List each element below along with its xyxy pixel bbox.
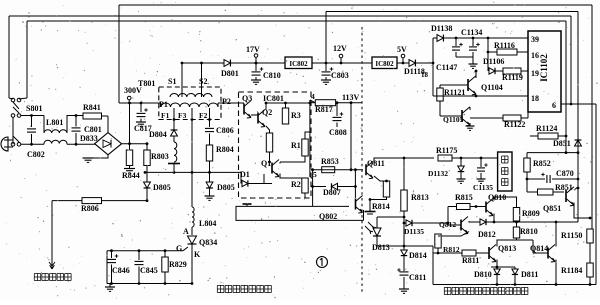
svg-text:12V: 12V xyxy=(333,44,347,53)
svg-text:D807: D807 xyxy=(323,188,341,197)
svg-text:6: 6 xyxy=(552,101,556,110)
svg-text:D804: D804 xyxy=(149,130,167,139)
svg-text:F3: F3 xyxy=(178,111,187,120)
svg-text:5: 5 xyxy=(313,170,317,179)
svg-text:T801: T801 xyxy=(138,79,155,88)
svg-text:S801: S801 xyxy=(26,104,42,113)
svg-text:113V: 113V xyxy=(342,93,360,102)
svg-text:Q834: Q834 xyxy=(199,238,217,247)
svg-text:C811: C811 xyxy=(409,273,426,282)
svg-text:4: 4 xyxy=(311,92,315,101)
svg-text:D851: D851 xyxy=(553,139,571,148)
svg-text:IC1102: IC1102 xyxy=(539,54,549,82)
svg-text:R1121: R1121 xyxy=(444,88,465,97)
svg-text:Q2: Q2 xyxy=(262,108,272,117)
svg-text:R1150: R1150 xyxy=(561,231,582,240)
svg-text:K: K xyxy=(194,250,201,259)
svg-text:S1: S1 xyxy=(168,77,176,86)
svg-text:R809: R809 xyxy=(522,209,540,218)
svg-text:R829: R829 xyxy=(169,260,187,269)
svg-text:R803: R803 xyxy=(151,152,169,161)
svg-text:R3: R3 xyxy=(291,111,301,120)
svg-text:D810: D810 xyxy=(474,270,492,279)
svg-text:C801: C801 xyxy=(84,125,102,134)
svg-text:C803: C803 xyxy=(331,71,349,80)
svg-text:D1135: D1135 xyxy=(404,227,424,236)
svg-text:R806: R806 xyxy=(81,204,99,213)
svg-text:C846: C846 xyxy=(112,266,130,275)
svg-text:D812: D812 xyxy=(478,230,496,239)
svg-text:C810: C810 xyxy=(263,71,281,80)
svg-text:IC802: IC802 xyxy=(289,60,308,68)
svg-text:R817: R817 xyxy=(315,105,333,114)
svg-text:D813: D813 xyxy=(372,243,390,252)
svg-text:R1: R1 xyxy=(291,141,301,150)
svg-text:IC802: IC802 xyxy=(375,60,394,68)
svg-text:18: 18 xyxy=(531,94,539,103)
svg-text:D814: D814 xyxy=(409,251,427,260)
svg-text:R1175: R1175 xyxy=(436,146,457,155)
svg-text:19: 19 xyxy=(531,69,539,78)
svg-text:Q1105: Q1105 xyxy=(443,115,464,124)
svg-text:18: 18 xyxy=(421,71,429,79)
svg-text:C806: C806 xyxy=(216,126,234,135)
svg-text:R2: R2 xyxy=(291,180,301,189)
svg-text:D811: D811 xyxy=(521,270,538,279)
svg-text:P1: P1 xyxy=(159,100,168,109)
svg-text:Q814: Q814 xyxy=(530,244,548,253)
svg-text:D1106: D1106 xyxy=(483,57,504,66)
svg-text:R804: R804 xyxy=(216,145,234,154)
svg-text:5V: 5V xyxy=(397,45,407,54)
svg-text:R1122: R1122 xyxy=(504,120,525,129)
svg-text:C845: C845 xyxy=(140,266,158,275)
svg-text:R852: R852 xyxy=(533,159,551,168)
svg-text:R841: R841 xyxy=(83,103,101,112)
svg-text:R815: R815 xyxy=(455,193,473,202)
svg-text:R810: R810 xyxy=(520,227,538,236)
svg-text:L804: L804 xyxy=(199,219,216,228)
svg-text:Q1104: Q1104 xyxy=(481,83,503,92)
svg-text:Q802: Q802 xyxy=(319,212,337,221)
svg-text:D833: D833 xyxy=(80,134,98,143)
svg-text:Q811: Q811 xyxy=(367,159,385,168)
svg-text:R1116: R1116 xyxy=(494,41,515,50)
svg-text:C1135: C1135 xyxy=(473,183,493,192)
svg-text:R1124: R1124 xyxy=(536,124,557,133)
svg-text:R844: R844 xyxy=(122,171,140,180)
svg-text:R1184: R1184 xyxy=(561,266,582,275)
svg-text:D1132: D1132 xyxy=(428,169,448,178)
svg-text:C870: C870 xyxy=(556,169,574,178)
svg-text:F2: F2 xyxy=(199,111,208,120)
svg-text:Q1: Q1 xyxy=(261,159,271,168)
svg-text:P2: P2 xyxy=(222,97,231,106)
svg-text:D1138: D1138 xyxy=(431,24,452,33)
svg-text:R813: R813 xyxy=(411,193,429,202)
svg-text:R853: R853 xyxy=(321,157,339,166)
svg-text:C1134: C1134 xyxy=(461,28,482,37)
svg-text:G: G xyxy=(176,244,182,253)
svg-text:Q851: Q851 xyxy=(543,204,561,213)
svg-text:16: 16 xyxy=(531,51,539,60)
svg-text:Q3: Q3 xyxy=(242,94,252,103)
svg-text:A: A xyxy=(183,227,189,236)
svg-text:Q813: Q813 xyxy=(498,244,516,253)
svg-text:39: 39 xyxy=(531,35,539,44)
svg-text:D805: D805 xyxy=(217,183,235,192)
svg-text:C808: C808 xyxy=(329,128,347,137)
svg-text:L801: L801 xyxy=(46,118,63,127)
svg-text:D805: D805 xyxy=(153,183,171,192)
svg-text:R814: R814 xyxy=(372,202,390,211)
svg-text:D801: D801 xyxy=(221,69,239,78)
svg-text:S2: S2 xyxy=(199,77,207,86)
svg-text:C1147: C1147 xyxy=(436,63,457,72)
svg-text:F1: F1 xyxy=(161,111,170,120)
svg-text:17V: 17V xyxy=(246,45,260,54)
svg-text:R811: R811 xyxy=(462,256,479,265)
